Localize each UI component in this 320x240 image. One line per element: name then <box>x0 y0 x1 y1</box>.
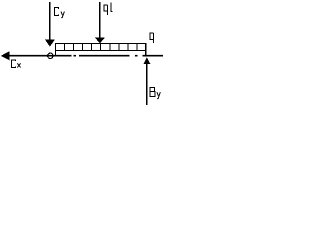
label By <box>150 87 160 99</box>
label q <box>150 33 154 43</box>
distributed load rectangle top edge <box>55 43 147 45</box>
force arrow Cx shaft / beam axis solid part <box>8 55 72 57</box>
force arrow By head <box>143 57 150 64</box>
label ql <box>104 2 113 15</box>
force arrow ql head <box>95 38 105 44</box>
force arrow By shaft <box>146 64 148 105</box>
label Cy <box>55 8 65 18</box>
distributed load left edge <box>55 43 57 57</box>
pin joint circle at C <box>48 53 53 58</box>
force arrow ql shaft <box>99 2 101 38</box>
force arrow Cy shaft <box>49 2 51 40</box>
distributed load right edge <box>145 43 147 57</box>
beam free-body diagram <box>0 0 170 107</box>
force arrow Cy head <box>45 40 55 47</box>
beam axis dash-dot segments <box>74 55 164 57</box>
label Cx <box>12 60 21 68</box>
distributed load ticks <box>65 44 137 51</box>
force arrow Cx head <box>1 51 10 60</box>
distributed load rectangle bottom edge <box>55 50 147 52</box>
